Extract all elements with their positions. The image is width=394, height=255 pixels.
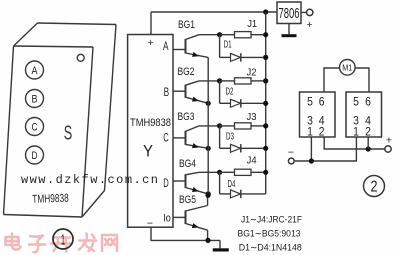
wire J4 left	[220, 171, 235, 173]
node J3 bus	[263, 123, 268, 128]
svg-text:D1∼D4:1N4148: D1∼D4:1N4148	[239, 242, 302, 253]
svg-text:−: −	[147, 218, 153, 230]
node top rail to bus	[263, 9, 268, 14]
relay coil J1	[235, 18, 258, 38]
wire D4 anode	[220, 193, 231, 195]
transistor BG2	[186, 81, 221, 104]
svg-text:J2: J2	[247, 66, 257, 78]
ground (main)	[213, 240, 229, 251]
svg-text:Y: Y	[143, 142, 153, 161]
wire J3 left	[220, 125, 235, 127]
node collector BG4 / J4	[217, 170, 222, 175]
wire base BG3	[173, 137, 186, 139]
wire drop to D3	[219, 126, 221, 148]
red watermark 子	[29, 236, 45, 253]
button C	[26, 118, 44, 136]
red watermark 发	[79, 234, 96, 252]
svg-text:D: D	[32, 150, 38, 162]
svg-text:Io: Io	[163, 213, 171, 225]
svg-text:C: C	[163, 133, 169, 145]
svg-text:S: S	[64, 122, 73, 145]
svg-text:C: C	[32, 121, 38, 133]
node emitter BG4	[206, 191, 211, 196]
connector block left	[300, 92, 336, 138]
node J2 bus	[263, 78, 268, 83]
svg-text:6: 6	[319, 94, 325, 108]
transistor BG3	[186, 126, 221, 150]
svg-text:+: +	[148, 37, 154, 49]
relay coil J2	[235, 66, 257, 84]
node D1 bus	[263, 55, 268, 60]
wire drop to D1	[219, 35, 221, 58]
svg-text:1: 1	[307, 124, 313, 138]
svg-text:D3: D3	[226, 132, 234, 143]
svg-text:B: B	[164, 87, 170, 99]
callout 1	[53, 229, 73, 249]
svg-text:+: +	[386, 135, 392, 147]
svg-text:www.dzkfw.com.cn: www.dzkfw.com.cn	[21, 173, 159, 187]
indicator LED	[77, 54, 84, 61]
button B	[26, 90, 44, 108]
wire base BG1	[173, 49, 186, 51]
wire drop to D4	[219, 172, 221, 194]
top supply rail	[151, 11, 277, 13]
vertical + bus	[265, 12, 267, 194]
node collector BG3 / J3	[217, 123, 222, 128]
wire D1 anode	[220, 56, 231, 58]
wire D1 cathode to bus	[241, 56, 266, 58]
diode D3	[226, 132, 241, 153]
svg-text:+: +	[306, 19, 312, 31]
red watermark 网	[102, 235, 117, 251]
svg-text:BG2: BG2	[178, 66, 195, 78]
node emitter BG3	[206, 146, 211, 151]
svg-text:D1: D1	[224, 40, 232, 51]
node left pin1 on - rail	[309, 158, 314, 163]
wire left pin2 down to + rail	[324, 137, 385, 149]
diode D4	[228, 179, 241, 198]
wire base BG5 (Io)	[173, 216, 186, 218]
wire D2 anode	[220, 102, 231, 104]
svg-text:J4: J4	[247, 155, 257, 167]
node collector BG1 / J1	[217, 32, 222, 37]
IC U1 TMH9838 body	[128, 35, 173, 228]
node J1 bus	[263, 32, 268, 37]
wire IC + pin to top rail	[150, 12, 152, 35]
svg-text:A: A	[32, 65, 39, 77]
relay coil J3	[235, 111, 257, 129]
svg-text:J1: J1	[247, 18, 257, 30]
button A	[26, 61, 44, 79]
remote control box outline	[4, 23, 117, 217]
wire right pin2 down	[367, 137, 369, 149]
node emitter BG5 to rail	[205, 238, 210, 243]
node collector BG2 / J2	[217, 78, 222, 83]
terminal - (motor supply)	[288, 158, 294, 164]
red watermark 开	[51, 238, 71, 252]
wire base BG4	[173, 180, 186, 182]
node D2 bus	[263, 101, 268, 106]
wire 7806 output	[301, 11, 307, 13]
svg-text:D: D	[163, 178, 169, 190]
relay coil J4	[235, 155, 257, 176]
svg-text:D4: D4	[228, 179, 236, 190]
svg-text:2: 2	[319, 124, 325, 138]
svg-text:D2: D2	[226, 87, 234, 98]
terminal + (motor supply)	[385, 146, 391, 152]
svg-text:1: 1	[353, 124, 359, 138]
wire M1 right	[355, 68, 369, 92]
svg-text:BG3: BG3	[178, 111, 195, 123]
connector block right	[346, 92, 382, 138]
wire J4 right to bus	[251, 171, 266, 173]
svg-text:J3: J3	[247, 111, 257, 123]
regulator 7806	[277, 2, 301, 24]
red watermark 电	[6, 234, 21, 250]
ground (7806)	[282, 24, 297, 38]
svg-text:7806: 7806	[279, 5, 300, 22]
transistor BG4	[186, 172, 221, 194]
svg-text:B: B	[32, 93, 38, 105]
common emitter bus	[207, 57, 209, 195]
wire D3 anode	[220, 147, 231, 149]
diode D2	[226, 87, 241, 108]
svg-text:BG1: BG1	[178, 19, 195, 31]
svg-text:A: A	[163, 41, 169, 53]
svg-text:M1: M1	[342, 63, 352, 73]
svg-text:TMH9838: TMH9838	[130, 117, 171, 129]
node D3 bus	[263, 146, 268, 151]
node emitter BG2	[206, 101, 211, 106]
svg-text:BG5: BG5	[179, 194, 196, 206]
button D	[26, 146, 44, 164]
diode D1	[224, 40, 241, 62]
wire J1 right to bus	[251, 34, 266, 36]
wire J2 right to bus	[251, 80, 266, 82]
svg-text:−: −	[288, 147, 294, 159]
svg-text:TMH9838: TMH9838	[32, 193, 69, 206]
wire M1 left	[324, 68, 340, 92]
wire J3 right to bus	[251, 125, 266, 127]
wire left pin1 down	[310, 137, 312, 161]
svg-text:6: 6	[365, 94, 371, 108]
wire J2 left	[220, 80, 235, 82]
wire D3 cathode to bus	[241, 147, 266, 149]
svg-text:2: 2	[365, 124, 371, 138]
transistor BG1	[186, 35, 221, 59]
wire D4 cathode to bus	[241, 193, 266, 195]
svg-text:J1∼J4:JRC-21F: J1∼J4:JRC-21F	[241, 213, 302, 224]
node BG4 emitter / BG5 collector	[205, 193, 210, 198]
svg-text:5: 5	[307, 94, 313, 108]
node right pin2 on + rail	[366, 146, 371, 151]
motor M1	[340, 60, 356, 76]
transistor BG5	[186, 195, 208, 240]
svg-text:1: 1	[61, 232, 66, 249]
wire D2 cathode to bus	[241, 102, 266, 104]
svg-text:2: 2	[371, 179, 378, 196]
svg-text:BG1∼BG5:9013: BG1∼BG5:9013	[238, 227, 301, 238]
node J4 bus	[263, 170, 268, 175]
callout 2	[364, 176, 385, 197]
wire base BG2	[173, 90, 186, 92]
svg-text:5: 5	[353, 94, 359, 108]
wire IC - pin down	[151, 227, 220, 240]
svg-text:BG4: BG4	[179, 158, 196, 170]
terminal + (7806 output)	[307, 9, 313, 15]
wire right pin1 down to - rail	[294, 137, 356, 161]
wire J1 left	[220, 34, 235, 36]
wire drop to D2	[219, 81, 221, 103]
